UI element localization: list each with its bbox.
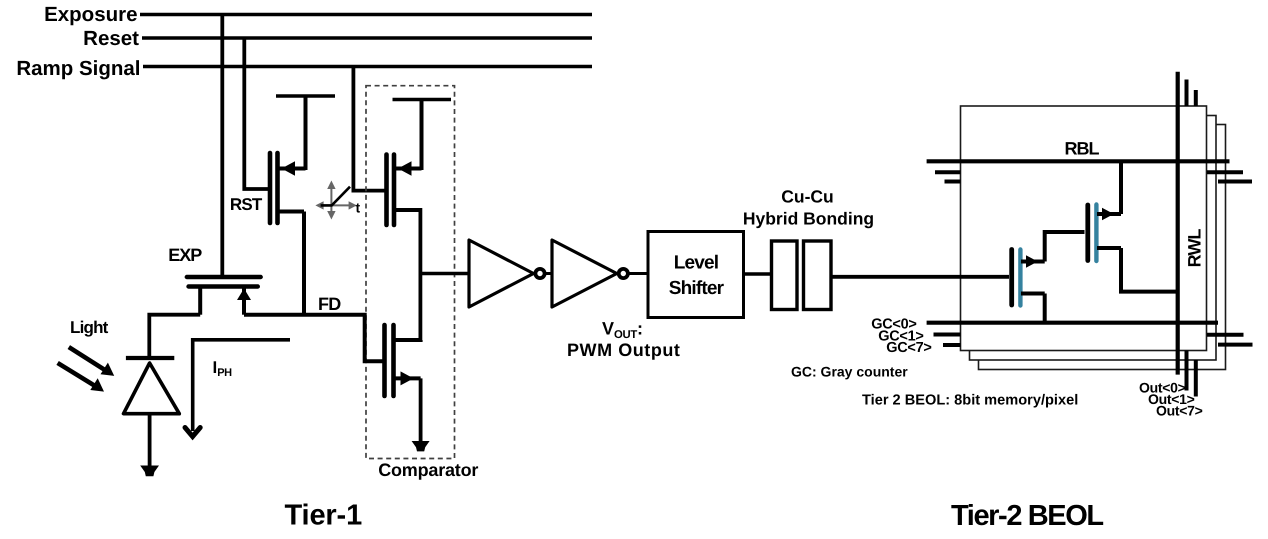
transistor RST Q1: [270, 153, 278, 223]
svg-text:Reset: Reset: [83, 27, 139, 50]
svg-text:Ramp Signal: Ramp Signal: [16, 57, 140, 80]
ground comparator: [412, 441, 430, 451]
wire RBL stub left 3: [945, 180, 961, 184]
wire RBL stub right 2: [1207, 170, 1243, 174]
power VDD bar T1: [276, 96, 335, 170]
wire RBL stub left 2: [935, 170, 961, 174]
svg-text:GC: Gray counter: GC: Gray counter: [791, 364, 908, 380]
wire Exposure rail: [140, 13, 592, 17]
svg-text:Out<7>: Out<7>: [1156, 403, 1203, 419]
wire level shifter to Cu pad: [744, 272, 772, 276]
wire RWL: [1176, 72, 1180, 375]
symbol light arrow 2: [58, 363, 96, 387]
svg-text:Comparator: Comparator: [378, 460, 478, 480]
ground photodiode: [140, 466, 159, 477]
transistor comparator PMOS Q2: [387, 155, 395, 226]
svg-text:Tier 2 BEOL: 8bit memory/pixel: Tier 2 BEOL: 8bit memory/pixel: [862, 393, 1078, 409]
svg-text:Tier-1: Tier-1: [285, 500, 363, 532]
svg-text:Shifter: Shifter: [669, 278, 725, 299]
svg-text:Exposure: Exposure: [44, 3, 137, 26]
svg-text:RST: RST: [230, 195, 263, 214]
svg-text:t: t: [356, 200, 361, 216]
wire GC stub right 2: [1207, 333, 1244, 337]
block Level Shifter: [648, 232, 744, 318]
wire Exposure drop to EXP gate: [220, 15, 224, 278]
svg-text:RBL: RBL: [1065, 139, 1100, 159]
svg-text:Level: Level: [674, 253, 719, 274]
transistor comparator NMOS Q3: [385, 325, 394, 396]
wire U2 to level shifter: [629, 272, 649, 275]
inverter U2: [552, 240, 617, 307]
comparator dashed box: [366, 86, 455, 459]
transistor tier2 M1: [1012, 250, 1021, 306]
wire RWL stub top 2: [1185, 80, 1189, 107]
wire U1 to U2: [546, 272, 553, 275]
wire RBL: [927, 159, 1230, 163]
symbol light arrow 1: [69, 347, 106, 371]
svg-text:EXP: EXP: [168, 245, 202, 265]
svg-text:Light: Light: [70, 318, 109, 337]
wire Out stub 3: [1194, 360, 1198, 397]
Cu-Cu pad 2: [804, 241, 832, 310]
bubble U1: [535, 269, 544, 278]
svg-text:Tier-2 BEOL: Tier-2 BEOL: [951, 500, 1103, 532]
wire comparator NMOS source to ground: [419, 378, 423, 443]
wire Reset rail: [142, 36, 592, 40]
svg-text:Cu-Cu: Cu-Cu: [781, 187, 833, 207]
svg-text:FD: FD: [318, 294, 341, 314]
svg-text:GC<7>: GC<7>: [886, 340, 931, 356]
inverter U1: [469, 240, 534, 307]
node comparator output: [418, 208, 422, 342]
wire RWL stub top 3: [1194, 90, 1198, 106]
symbol IPH current arrow: [193, 340, 290, 431]
wire GC bus: [927, 321, 1218, 325]
photodiode D1: [126, 356, 174, 360]
wire Reset drop to RST gate: [244, 38, 268, 189]
svg-text:RWL: RWL: [1184, 229, 1204, 268]
tier2 memory box back: [979, 125, 1226, 370]
tier2 memory box front: [961, 106, 1207, 351]
symbol ramp waveform: [321, 187, 350, 206]
wire Ramp Signal rail: [143, 65, 592, 69]
wire GC stub left 7: [943, 343, 961, 347]
wire FD net: [244, 315, 384, 362]
bubble U2: [619, 269, 628, 278]
transistor EXP Q4: [187, 277, 261, 287]
wire Ramp drop to comparator gate: [353, 67, 384, 191]
wire Out stub 2: [1185, 351, 1189, 391]
wire RBL stub right 3: [1218, 180, 1252, 184]
wire GC stub left 1: [934, 333, 961, 337]
wire photodiode branch: [149, 315, 200, 358]
Cu-Cu pad 1: [772, 241, 798, 310]
tier2 memory box middle: [970, 116, 1217, 361]
svg-text:PWM Output: PWM Output: [567, 340, 680, 360]
svg-text:Hybrid Bonding: Hybrid Bonding: [743, 209, 874, 229]
symbol ramp-time axes: [315, 181, 356, 220]
power VDD bar comparator: [393, 100, 452, 171]
wire GC stub right 3: [1218, 343, 1253, 347]
wire Cu pad to tier2 gate: [831, 275, 1009, 279]
transistor tier2 M2: [1088, 205, 1097, 262]
